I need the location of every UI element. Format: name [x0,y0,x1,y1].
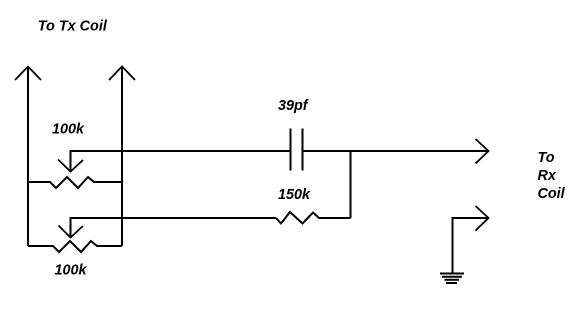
wire R2 wiper to 150k [71,218,277,238]
svg-text:100k: 100k [52,122,85,138]
wire capacitor to Rx arrow [303,150,489,152]
resistor R2 100k (bottom potentiometer body) [28,241,122,252]
arrowhead R1 wiper down [58,160,83,172]
capacitor C1 39pf [291,129,303,171]
wire right rail to Tx [121,67,123,247]
label To Tx Coil [38,18,108,34]
label 100k (R1) [52,122,85,138]
resistor R3 150k [276,212,351,224]
arrowhead R2 wiper down [59,226,84,238]
svg-text:To Tx Coil: To Tx Coil [38,18,108,34]
wire left rail to Tx [27,67,29,247]
arrowhead right rail up [109,67,135,81]
label 100k (R2) [55,263,88,279]
arrowhead to Rx coil [476,139,489,164]
arrowhead left rail up [15,67,41,81]
svg-text:150k: 150k [278,187,311,203]
svg-text:100k: 100k [55,263,88,279]
wire node junction 150k to capacitor output [350,151,352,218]
arrowhead ground branch right [476,206,489,231]
label 150k [278,187,311,203]
wire R1 wiper to capacitor [71,151,291,172]
svg-text:Coil: Coil [538,186,566,202]
svg-text:39pf: 39pf [278,98,309,114]
resistor R1 100k (top potentiometer body) [28,177,122,188]
wire ground branch to Rx [453,218,489,273]
svg-text:Rx: Rx [538,168,557,184]
label To Rx Coil [538,150,566,202]
label 39pf [278,98,309,114]
ground [440,274,464,284]
svg-text:To: To [538,150,555,166]
